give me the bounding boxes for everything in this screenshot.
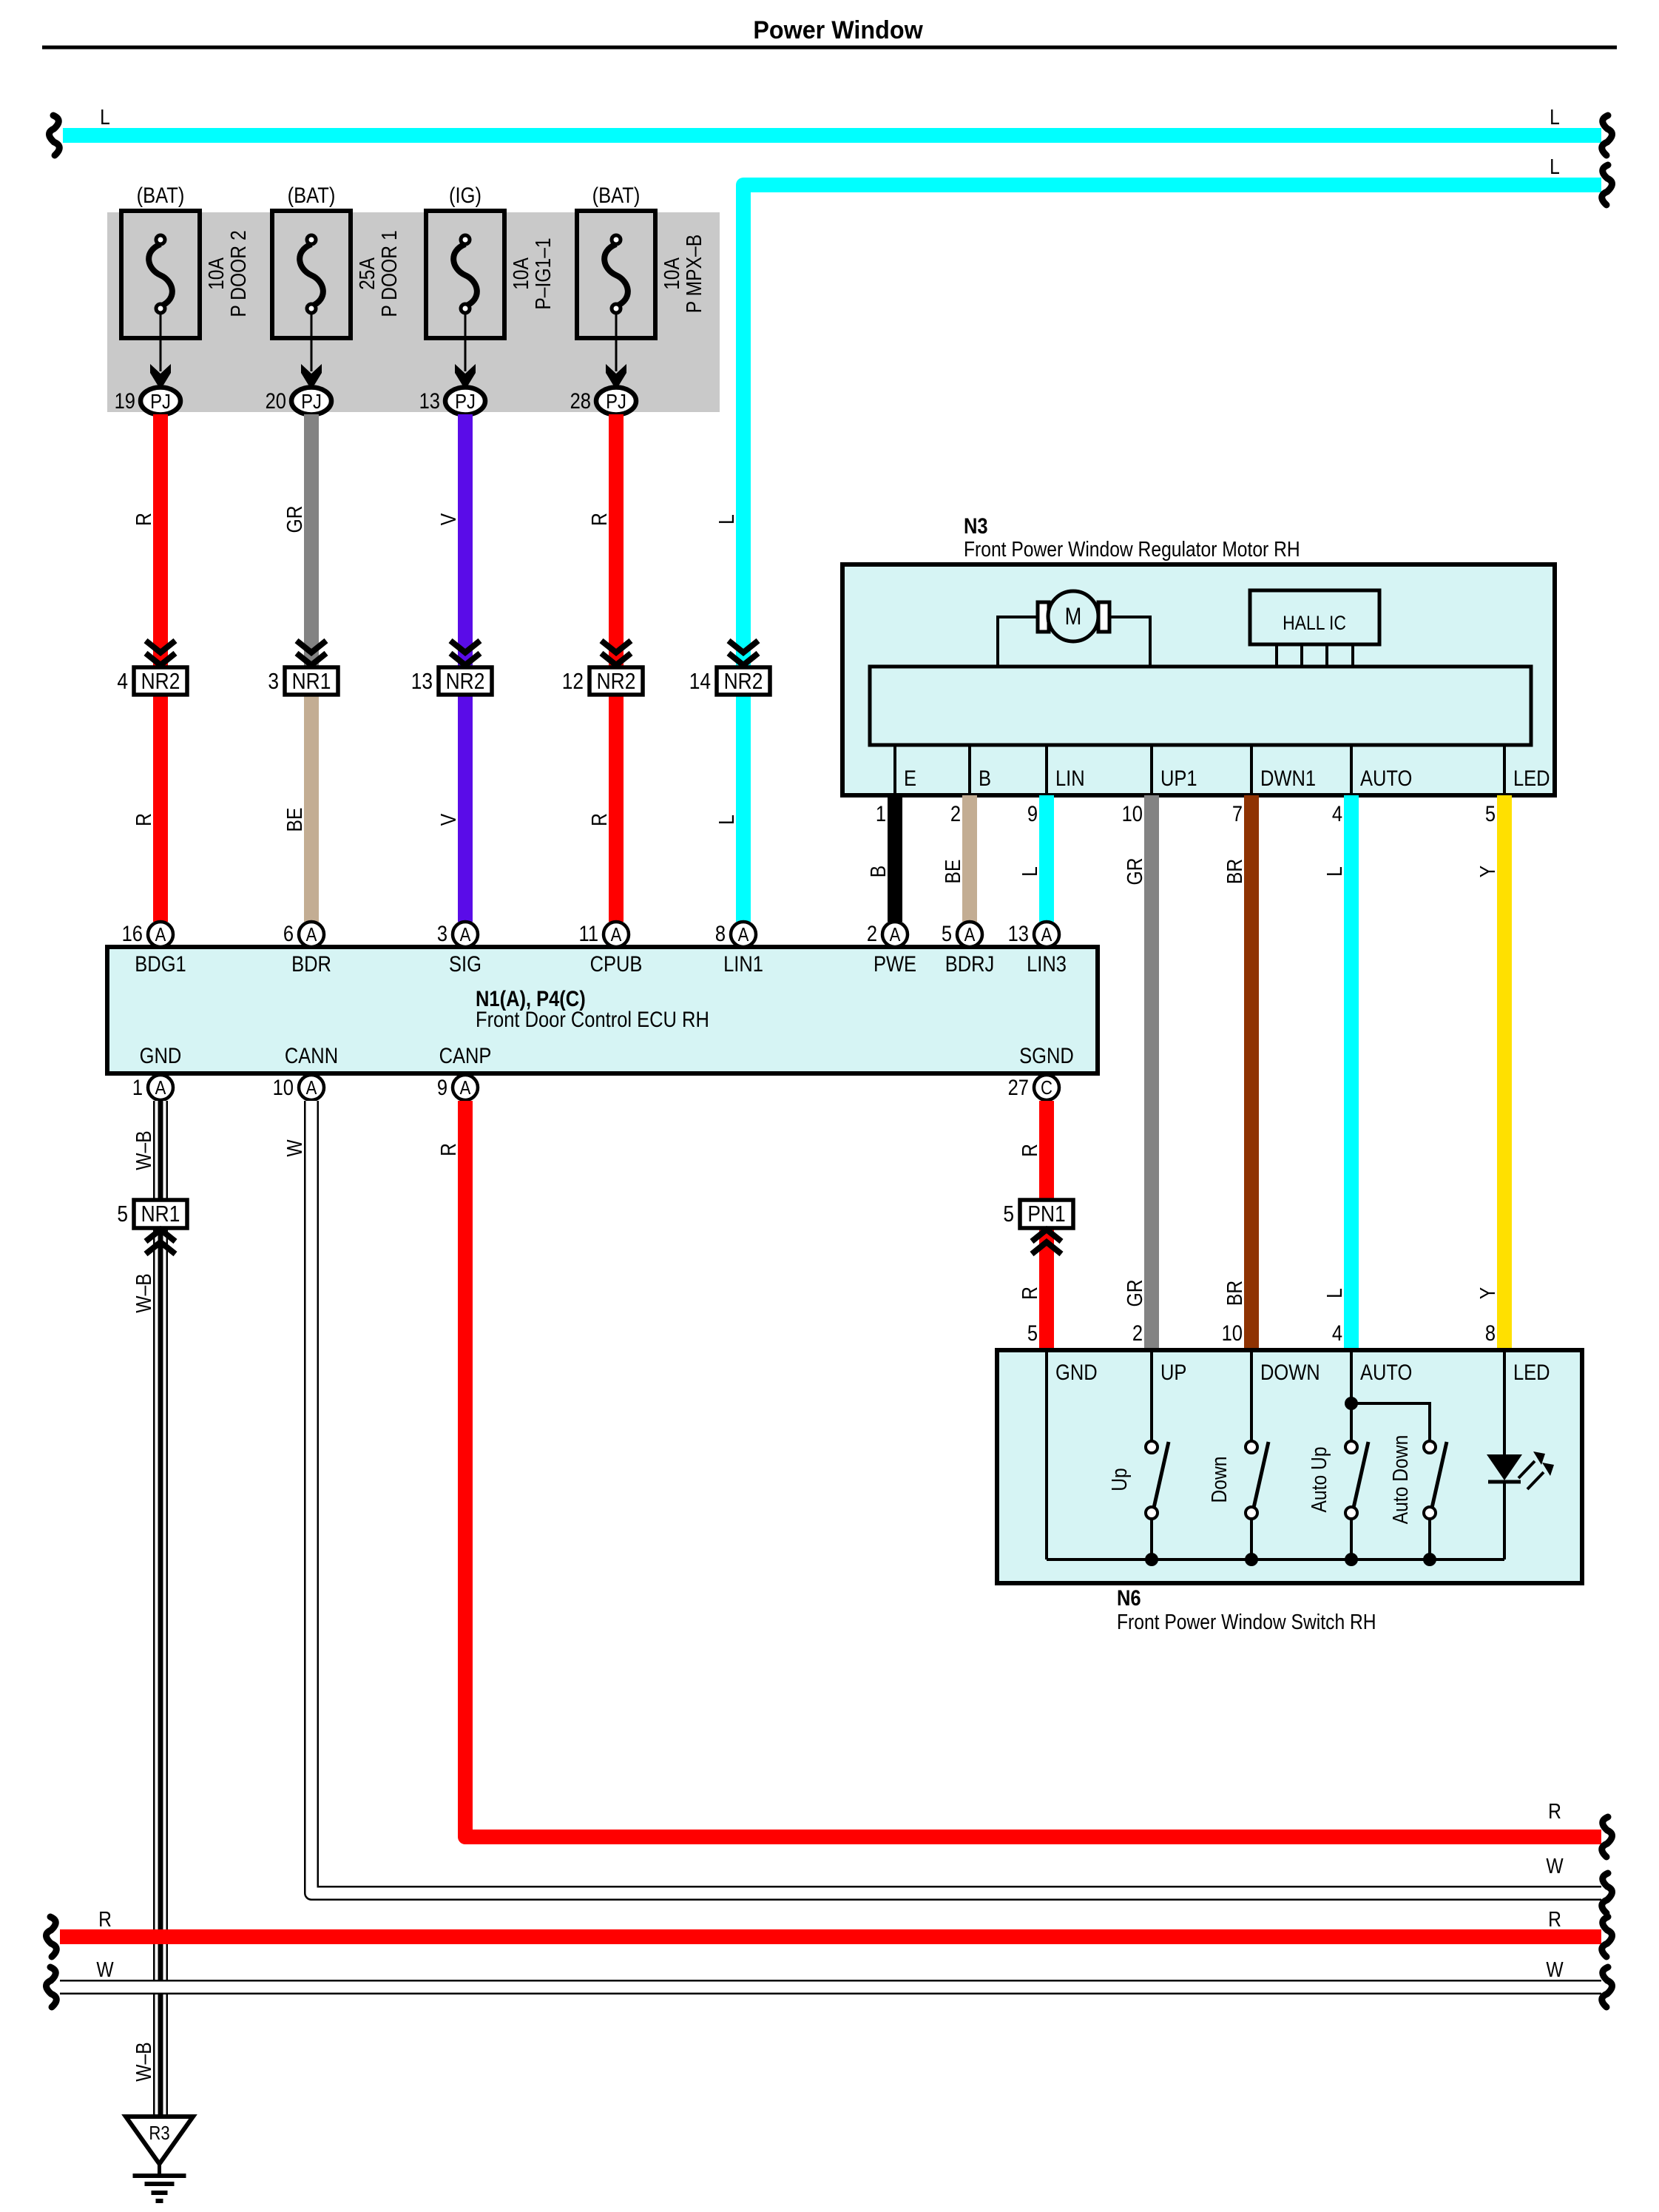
svg-text:16: 16 [122, 921, 143, 945]
label (BAT) fuse 10A P DOOR 2 [137, 183, 185, 207]
svg-text:(BAT): (BAT) [137, 183, 185, 207]
N6 pin number 2 [1132, 1321, 1143, 1345]
break symbol W cann right [1602, 1873, 1612, 1913]
svg-text:A: A [738, 924, 750, 945]
ECU pin 16A BDG1 [122, 921, 186, 976]
svg-text:A: A [890, 924, 902, 945]
break symbol top-left [50, 115, 60, 155]
svg-text:9: 9 [1027, 801, 1038, 826]
svg-text:PJ: PJ [606, 389, 626, 413]
N3 pin number 7 (DWN1) [1232, 801, 1243, 826]
label R sgnd lower [1018, 1287, 1041, 1300]
label BE [941, 860, 964, 884]
N6 ground bus [1047, 1558, 1504, 1561]
N3 pin label UP1 [1160, 766, 1197, 790]
junction block panel [107, 212, 720, 412]
wire BE (BDRJ) [962, 795, 977, 922]
svg-text:A: A [964, 924, 976, 945]
svg-text:CANP: CANP [439, 1043, 492, 1068]
inline connector 5 NR1 [117, 1200, 187, 1254]
svg-text:Power Window: Power Window [753, 16, 923, 44]
svg-text:AUTO: AUTO [1360, 766, 1412, 790]
label R sgnd upper [1018, 1144, 1041, 1157]
svg-text:L: L [100, 105, 110, 129]
wire R bottom bus [60, 1929, 1601, 1944]
svg-text:PJ: PJ [455, 389, 476, 413]
label R right end [1548, 1799, 1561, 1823]
svg-text:7: 7 [1232, 801, 1243, 826]
label L second [1550, 155, 1560, 178]
svg-text:PWE: PWE [874, 951, 916, 976]
svg-text:A: A [1041, 924, 1053, 945]
label W bottom left [96, 1958, 114, 1981]
svg-text:28: 28 [570, 388, 591, 413]
svg-text:4: 4 [1332, 801, 1342, 826]
arrow fuse P DOOR 1 to PJ [301, 314, 322, 390]
svg-text:C: C [1041, 1077, 1052, 1099]
ECU pin 9A CANP [437, 1043, 492, 1100]
svg-text:5: 5 [117, 1201, 128, 1227]
N3 pin number 5 (LED) [1485, 801, 1496, 826]
svg-text:W–B: W–B [132, 2042, 155, 2081]
svg-text:27: 27 [1008, 1075, 1029, 1099]
connector PJ pin 20 [266, 388, 331, 415]
label L lin [1018, 866, 1041, 877]
inline connector 5 PN1 [1003, 1200, 1073, 1254]
svg-text:1: 1 [132, 1075, 143, 1099]
label R bottom right [1548, 1907, 1561, 1931]
wire L (AUTO) [1344, 795, 1359, 1350]
inline connector 13 NR2 [411, 641, 492, 695]
N3 pin wall B [968, 745, 971, 793]
N3 pin wall AUTO [1350, 745, 1353, 793]
svg-text:P DOOR 2: P DOOR 2 [226, 230, 250, 317]
switch Auto Up [1307, 1441, 1368, 1566]
svg-text:2: 2 [1132, 1321, 1143, 1345]
svg-text:R: R [1018, 1287, 1041, 1300]
motor brushes [1038, 602, 1109, 632]
label R bottom left [98, 1907, 112, 1931]
wire BR (DWN1) [1244, 795, 1259, 1350]
N3 box [842, 564, 1555, 795]
label R col1 upper [132, 513, 155, 526]
label GR lower [1123, 1280, 1146, 1307]
label W-B lower [132, 2042, 155, 2081]
N6 pin number 5 [1027, 1321, 1038, 1345]
svg-text:25A: 25A [355, 257, 379, 290]
label L auto lower [1322, 1288, 1346, 1298]
wire W-B (GND) [153, 1101, 168, 2117]
inline connector 3 NR1 [268, 641, 338, 695]
label W bottom right [1546, 1958, 1564, 1981]
N3 pin label E [904, 766, 916, 790]
ECU pin 5A BDRJ [942, 921, 994, 976]
svg-text:A: A [460, 924, 472, 945]
svg-text:20: 20 [266, 388, 286, 413]
svg-text:CPUB: CPUB [590, 951, 643, 976]
label L left [100, 105, 110, 129]
label L col5 upper [714, 514, 738, 525]
svg-text:PN1: PN1 [1027, 1201, 1065, 1227]
svg-text:N6: N6 [1117, 1585, 1141, 1610]
ECU pin 10A CANN [273, 1043, 338, 1100]
wire Y (LED) [1497, 795, 1512, 1350]
svg-text:GR: GR [1123, 1280, 1146, 1307]
break R bottom left [47, 1917, 57, 1957]
fuse label 10A P DOOR 2 [204, 230, 250, 317]
svg-text:GND: GND [140, 1043, 182, 1068]
title Power Window [753, 16, 923, 44]
label (BAT) fuse 10A P MPX–B [592, 183, 641, 207]
svg-text:NR2: NR2 [141, 669, 180, 694]
svg-text:10: 10 [273, 1075, 294, 1099]
label W-B upper [132, 1130, 155, 1170]
svg-text:B: B [866, 866, 890, 877]
svg-text:Front Door Control ECU RH: Front Door Control ECU RH [476, 1007, 709, 1031]
svg-text:10A: 10A [204, 257, 228, 290]
svg-text:BE: BE [941, 860, 964, 884]
svg-text:CANN: CANN [285, 1043, 338, 1068]
fuse 10A P MPX–B [577, 211, 655, 338]
label W-B mid [132, 1273, 155, 1312]
break W bottom right [1602, 1967, 1612, 2007]
label N6 [1117, 1585, 1141, 1610]
svg-text:2: 2 [950, 801, 961, 826]
svg-text:BDR: BDR [291, 951, 331, 976]
label BR lower [1223, 1281, 1246, 1306]
svg-text:GR: GR [283, 506, 306, 533]
N6 pin label DOWN [1260, 1360, 1320, 1384]
svg-text:SIG: SIG [449, 951, 482, 976]
svg-text:9: 9 [437, 1075, 447, 1099]
svg-text:6: 6 [283, 921, 294, 945]
svg-text:BE: BE [283, 808, 306, 832]
svg-text:L: L [714, 514, 738, 525]
title rule [42, 46, 1617, 50]
wire R from PJ19 [153, 414, 168, 922]
svg-text:LIN3: LIN3 [1027, 951, 1067, 976]
N3 pin wall LED [1503, 745, 1506, 793]
label R col1 lower [132, 813, 155, 826]
label (IG) fuse 10A P–IG1–1 [449, 183, 482, 207]
svg-text:R: R [1018, 1144, 1041, 1157]
svg-text:P–IG1–1: P–IG1–1 [531, 237, 555, 309]
N3 pin number 10 (UP1) [1122, 801, 1143, 826]
inline connector 14 NR2 [689, 641, 770, 695]
N6 pin label UP [1160, 1360, 1186, 1384]
fuse 10A P DOOR 2 [121, 211, 200, 338]
svg-text:V: V [436, 513, 460, 525]
ECU pin 2A PWE [867, 921, 916, 976]
svg-text:10A: 10A [509, 257, 533, 290]
wire L second (cyan to LIN1) [743, 185, 1601, 922]
svg-text:GND: GND [1055, 1360, 1098, 1384]
N6 pin number 10 [1222, 1321, 1243, 1345]
svg-text:Front Power Window Regulator M: Front Power Window Regulator Motor RH [964, 537, 1300, 561]
svg-text:P MPX–B: P MPX–B [682, 235, 706, 313]
svg-text:Auto Up: Auto Up [1307, 1446, 1331, 1512]
N3 pin number 9 (LIN) [1027, 801, 1038, 826]
svg-text:A: A [306, 924, 318, 945]
label N6 name [1117, 1610, 1376, 1633]
label (BAT) fuse 25A P DOOR 1 [288, 183, 336, 207]
inline connector 4 NR2 [117, 641, 187, 695]
arrow fuse P DOOR 2 to PJ [150, 314, 171, 390]
ECU pin 1A GND [132, 1043, 182, 1100]
AUTO conductor [1345, 1350, 1430, 1441]
N3 pin number 1 (E) [876, 801, 886, 826]
N3 inner circuit rect [870, 667, 1531, 745]
label GR upper [1123, 858, 1146, 886]
switch Down [1207, 1350, 1268, 1566]
label N3 name [964, 537, 1300, 561]
svg-text:LIN1: LIN1 [723, 951, 763, 976]
svg-text:P DOOR 1: P DOOR 1 [377, 230, 401, 317]
break R bottom right [1602, 1917, 1612, 1957]
label BR upper [1223, 859, 1246, 884]
svg-text:R: R [1548, 1907, 1561, 1931]
N6 GND conductor [1045, 1350, 1048, 1559]
ECU pin 13A LIN3 [1008, 921, 1067, 976]
label GR col2 upper [283, 506, 306, 533]
wire B (PWE) [888, 795, 902, 922]
svg-text:10: 10 [1122, 801, 1143, 826]
svg-text:Y: Y [1476, 866, 1499, 877]
HALL IC pins [1277, 644, 1353, 667]
svg-text:13: 13 [411, 669, 433, 694]
connector PJ pin 19 [115, 388, 180, 415]
fuse label 25A P DOOR 1 [355, 230, 401, 317]
N6 pin number 8 [1485, 1321, 1496, 1345]
svg-text:GR: GR [1123, 858, 1146, 886]
svg-text:W: W [96, 1958, 114, 1981]
label W cann [283, 1139, 306, 1157]
svg-text:5: 5 [1003, 1201, 1014, 1227]
label Y upper [1476, 866, 1499, 877]
break symbol top-right [1602, 115, 1612, 155]
N6 pin label GND [1055, 1360, 1098, 1384]
arrow fuse P–IG1–1 to PJ [455, 314, 476, 390]
svg-text:BDRJ: BDRJ [945, 951, 995, 976]
label L right top [1550, 105, 1560, 129]
label Y lower [1476, 1287, 1499, 1299]
N3 pin label AUTO [1360, 766, 1412, 790]
svg-text:SGND: SGND [1019, 1043, 1074, 1068]
motor leads [998, 617, 1150, 667]
wire BE below NR1 [304, 681, 319, 922]
svg-text:4: 4 [117, 669, 128, 694]
svg-text:R: R [587, 513, 611, 526]
svg-text:10: 10 [1222, 1321, 1243, 1345]
connector PJ pin 28 [570, 388, 636, 415]
N3 pin number 2 (B) [950, 801, 961, 826]
label L col5 lower [714, 815, 738, 825]
svg-text:L: L [1322, 1288, 1346, 1298]
ECU pin 6A BDR [283, 921, 331, 976]
svg-text:LIN: LIN [1055, 766, 1085, 790]
svg-text:LED: LED [1513, 1360, 1550, 1384]
wire R (SGND) [1039, 1101, 1054, 1350]
svg-text:AUTO: AUTO [1360, 1360, 1412, 1384]
label B [866, 866, 890, 877]
svg-text:5: 5 [1027, 1321, 1038, 1345]
fuse 25A P DOOR 1 [272, 211, 351, 338]
wire W bottom bus [60, 1980, 1601, 1994]
connector PJ pin 13 [419, 388, 485, 415]
svg-text:M: M [1065, 604, 1082, 630]
ground R3 [126, 2117, 193, 2201]
svg-text:3: 3 [268, 669, 279, 694]
fuse label 10A P–IG1–1 [509, 237, 555, 309]
svg-text:1: 1 [876, 801, 886, 826]
LED indicator [1487, 1350, 1554, 1559]
svg-text:A: A [611, 924, 623, 945]
label V col3 upper [436, 513, 460, 525]
svg-text:Up: Up [1107, 1468, 1131, 1491]
svg-text:PJ: PJ [150, 389, 171, 413]
N3 pin label LIN [1055, 766, 1085, 790]
svg-text:V: V [436, 814, 460, 826]
svg-text:L: L [1550, 155, 1560, 178]
svg-text:R: R [98, 1907, 112, 1931]
N3 pin label LED [1513, 766, 1550, 790]
svg-text:W: W [1546, 1958, 1564, 1981]
svg-text:12: 12 [562, 669, 584, 694]
fuse 10A P–IG1–1 [426, 211, 504, 338]
wire GR (UP1) [1144, 795, 1159, 1350]
N3 pin wall LIN [1045, 745, 1048, 793]
motor M1 [1048, 591, 1098, 641]
wire R from PJ28 [609, 414, 624, 922]
label BE col2 lower [283, 808, 306, 832]
svg-text:(IG): (IG) [449, 183, 482, 207]
label R canp [436, 1143, 460, 1156]
wire L (LIN3) [1039, 795, 1054, 922]
N6 pin label AUTO [1360, 1360, 1412, 1384]
svg-text:(BAT): (BAT) [288, 183, 336, 207]
svg-text:3: 3 [437, 921, 447, 945]
svg-text:B: B [979, 766, 991, 790]
svg-text:HALL IC: HALL IC [1283, 612, 1346, 634]
svg-text:L: L [1322, 866, 1346, 877]
svg-text:L: L [1018, 866, 1041, 877]
wire R (CANP) [465, 1101, 1601, 1837]
fuse label 10A P MPX–B [660, 235, 706, 313]
svg-text:W: W [283, 1139, 306, 1157]
N3 pin wall E [893, 745, 896, 793]
break symbol second right [1602, 165, 1612, 205]
wire L top (cyan bus) [63, 128, 1601, 143]
ECU pin 27C SGND [1008, 1043, 1074, 1100]
N3 pin wall DWN1 [1250, 745, 1253, 793]
svg-text:A: A [306, 1077, 318, 1099]
svg-text:Down: Down [1207, 1456, 1231, 1503]
svg-text:NR2: NR2 [597, 669, 636, 694]
svg-text:A: A [155, 924, 167, 945]
switch Up [1107, 1350, 1169, 1566]
N3 pin label DWN1 [1260, 766, 1316, 790]
svg-text:A: A [460, 1077, 472, 1099]
svg-text:L: L [1550, 105, 1560, 129]
ECU pin 8A LIN1 [715, 921, 763, 976]
svg-text:10A: 10A [660, 257, 683, 290]
svg-text:UP: UP [1160, 1360, 1186, 1384]
svg-text:LED: LED [1513, 766, 1550, 790]
break W bottom left [47, 1967, 57, 2007]
ECU pin 3A SIG [437, 921, 482, 976]
N3 pin wall UP1 [1150, 745, 1153, 793]
svg-text:N3: N3 [964, 513, 988, 538]
N3 pin number 4 (AUTO) [1332, 801, 1342, 826]
svg-text:DOWN: DOWN [1260, 1360, 1320, 1384]
svg-text:R: R [436, 1143, 460, 1156]
wire V from PJ13 [458, 414, 473, 922]
svg-text:BDG1: BDG1 [135, 951, 186, 976]
label L auto upper [1322, 866, 1346, 877]
N6 pin number 4 [1332, 1321, 1342, 1345]
svg-text:A: A [155, 1077, 167, 1099]
N6 pin label LED [1513, 1360, 1550, 1384]
svg-text:W–B: W–B [132, 1130, 155, 1170]
svg-text:NR2: NR2 [446, 669, 485, 694]
svg-text:PJ: PJ [301, 389, 322, 413]
svg-text:8: 8 [715, 921, 726, 945]
ECU box N1(A) P4(C) [107, 947, 1098, 1073]
arrow fuse P MPX–B to PJ [606, 314, 626, 390]
svg-text:8: 8 [1485, 1321, 1496, 1345]
HALL IC box [1250, 590, 1379, 644]
label R col4 upper [587, 513, 611, 526]
svg-text:BR: BR [1223, 859, 1246, 884]
svg-text:Front Power Window Switch RH: Front Power Window Switch RH [1117, 1610, 1376, 1633]
label N3 [964, 513, 988, 538]
svg-text:NR2: NR2 [724, 669, 763, 694]
svg-text:Auto Down: Auto Down [1388, 1435, 1412, 1525]
svg-text:R: R [1548, 1799, 1561, 1823]
svg-text:14: 14 [689, 669, 711, 694]
label R col4 lower [587, 813, 611, 826]
svg-text:5: 5 [942, 921, 952, 945]
svg-text:R3: R3 [149, 2122, 169, 2144]
svg-text:W: W [1546, 1854, 1564, 1878]
N3 pin label B [979, 766, 991, 790]
svg-text:13: 13 [1008, 921, 1029, 945]
svg-text:4: 4 [1332, 1321, 1342, 1345]
switch Auto Down [1388, 1435, 1447, 1566]
label V col3 lower [436, 814, 460, 826]
svg-text:E: E [904, 766, 916, 790]
svg-text:UP1: UP1 [1160, 766, 1197, 790]
wire W (CANN) [311, 1101, 1601, 1893]
svg-text:DWN1: DWN1 [1260, 766, 1316, 790]
svg-text:NR1: NR1 [141, 1201, 180, 1227]
label W right end [1546, 1854, 1564, 1878]
svg-text:2: 2 [867, 921, 877, 945]
N6 box [997, 1350, 1582, 1583]
svg-text:BR: BR [1223, 1281, 1246, 1306]
svg-text:NR1: NR1 [292, 669, 331, 694]
svg-text:R: R [587, 813, 611, 826]
ECU title [476, 986, 709, 1031]
svg-text:13: 13 [419, 388, 440, 413]
svg-text:W–B: W–B [132, 1273, 155, 1312]
svg-text:(BAT): (BAT) [592, 183, 641, 207]
svg-text:R: R [132, 813, 155, 826]
svg-text:11: 11 [579, 921, 598, 945]
wire GR from PJ20 [304, 414, 319, 681]
svg-text:R: R [132, 513, 155, 526]
break symbol R canp right [1602, 1817, 1612, 1857]
